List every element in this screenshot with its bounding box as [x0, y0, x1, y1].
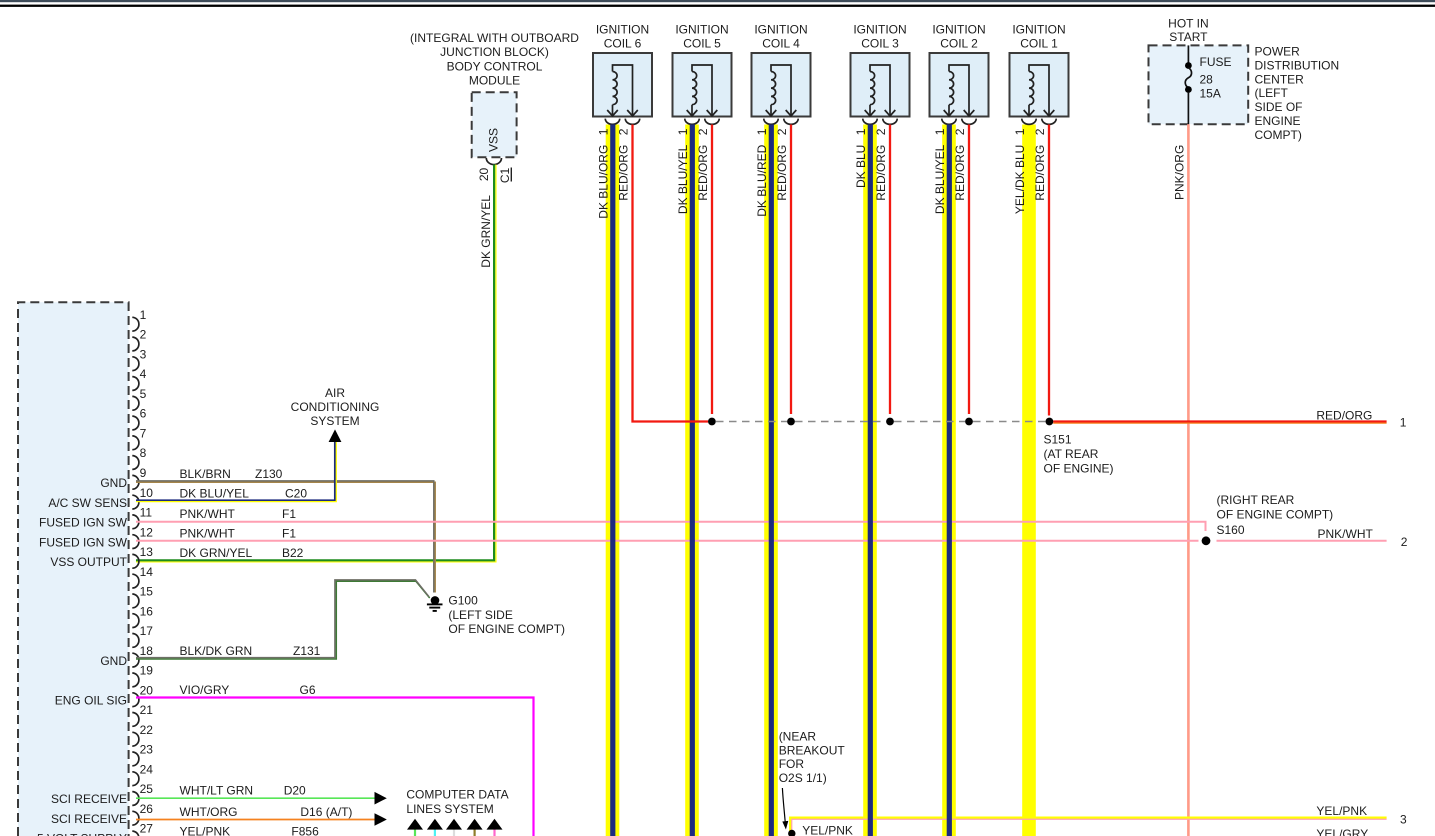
PCM connector pin number 10	[140, 486, 154, 500]
ignition coil 3 box	[851, 53, 910, 117]
PCM connector pin 5 terminal arc	[132, 396, 139, 410]
splice S160 junction dot	[1202, 536, 1211, 545]
wire label VIO/GRY G6	[180, 683, 316, 697]
ignition coil 1 pin 1 terminal arc	[1022, 119, 1036, 125]
PCM connector pin number 4	[140, 367, 147, 381]
wire label DK BLU (vertical)	[854, 145, 868, 188]
splice S160 label	[1217, 493, 1334, 537]
svg-text:VSS OUTPUT: VSS OUTPUT	[50, 555, 127, 569]
wire label RED/ORG coil 6 (vertical)	[617, 145, 631, 201]
wire RED/ORG from S151 to right edge row 1	[1053, 421, 1386, 423]
wire DK BLU/YEL ignition coil 2 pin 1 (yellow highlighted)	[942, 125, 956, 836]
splice junction dot at coil 2 RED/ORG	[965, 418, 973, 426]
ignition coil 1 inductor winding	[1024, 65, 1055, 116]
PCM connector pin 10 terminal arc	[132, 495, 139, 509]
ignition coil 3 inductor winding	[865, 65, 896, 116]
wire RED/ORG ignition coil 3 pin 2	[889, 125, 891, 415]
svg-text:11: 11	[140, 506, 153, 520]
ignition coil 1 pin number 2	[1033, 128, 1047, 135]
PCM connector pin 3 terminal arc	[132, 357, 139, 371]
PCM pin 9 function label GND	[100, 476, 127, 490]
wire VIO/GRY G6 pin 20 engine oil signal	[136, 698, 534, 836]
computer data lines arrow 1	[407, 819, 423, 836]
svg-text:D16 (A/T): D16 (A/T)	[300, 805, 352, 819]
ignition coil 3 pin number 1	[854, 128, 868, 135]
splice junction dot at coil 3 RED/ORG	[886, 418, 894, 426]
svg-text:COMPUTER DATA: COMPUTER DATA	[406, 788, 508, 802]
svg-text:21: 21	[140, 703, 154, 717]
splice junction dot at coil 5 RED/ORG	[708, 418, 716, 426]
wire RED/ORG ignition coil 5 pin 2	[711, 125, 713, 415]
svg-text:G100: G100	[448, 593, 478, 607]
svg-text:7: 7	[140, 427, 147, 441]
svg-text:1: 1	[854, 128, 868, 135]
PCM connector pin 27 terminal arc	[132, 831, 139, 836]
PCM connector pin number 5	[140, 387, 147, 401]
svg-text:COIL 5: COIL 5	[683, 37, 721, 51]
svg-text:SIDE OF: SIDE OF	[1255, 100, 1303, 114]
PCM connector pin 16 terminal arc	[132, 614, 139, 628]
fuse 28 element	[1185, 45, 1192, 124]
PCM connector pin 4 terminal arc	[132, 377, 139, 391]
svg-text:DK BLU/ORG: DK BLU/ORG	[597, 145, 611, 219]
svg-text:1: 1	[755, 128, 769, 135]
wire DK BLU/RED ignition coil 4 pin 1 (yellow highlighted)	[764, 125, 778, 836]
svg-text:2: 2	[775, 128, 789, 135]
svg-text:LINES SYSTEM: LINES SYSTEM	[406, 802, 493, 816]
svg-text:C20: C20	[285, 486, 307, 500]
svg-text:DK GRN/YEL: DK GRN/YEL	[180, 546, 253, 560]
BCM pin label VSS	[487, 128, 501, 152]
wire label DK BLU/YEL C20	[180, 486, 308, 500]
PCM connector pin 25 terminal arc	[132, 792, 139, 806]
PCM connector pin number 2	[140, 328, 147, 342]
PCM connector pin number 11	[140, 506, 153, 520]
svg-text:(AT REAR: (AT REAR	[1044, 447, 1099, 461]
wire label RED/ORG coil 2 (vertical)	[953, 145, 967, 201]
svg-text:COIL 3: COIL 3	[861, 37, 899, 51]
ignition coil 6 pin number 2	[617, 128, 631, 135]
svg-text:PNK/ORG: PNK/ORG	[1172, 145, 1186, 200]
svg-text:F856: F856	[291, 825, 319, 836]
svg-text:HOT IN: HOT IN	[1168, 16, 1208, 30]
svg-text:1: 1	[1400, 416, 1407, 430]
PCM connector pin number 15	[140, 585, 154, 599]
wire label DK GRN/YEL B22	[180, 546, 304, 560]
wire label YEL/PNK F856 (pin 27)	[180, 825, 320, 836]
svg-text:S151: S151	[1044, 432, 1072, 446]
svg-text:A/C SW SENS: A/C SW SENS	[48, 496, 127, 510]
svg-text:22: 22	[140, 723, 154, 737]
wire WHT/LT GRN D20 pin 25 SCI receive	[136, 797, 375, 799]
svg-text:20: 20	[140, 683, 154, 697]
wire label RED/ORG coil 3 (vertical)	[874, 145, 888, 201]
svg-text:B22: B22	[282, 546, 304, 560]
PCM connector pin 26 terminal arc	[132, 811, 139, 825]
svg-text:COMPT): COMPT)	[1255, 128, 1302, 142]
svg-text:S160: S160	[1217, 523, 1245, 537]
svg-text:D20: D20	[284, 784, 306, 798]
ignition coil 4 pin number 1	[755, 128, 769, 135]
svg-text:PNK/WHT: PNK/WHT	[180, 526, 236, 540]
svg-text:C1: C1	[498, 167, 512, 183]
svg-text:RED/ORG: RED/ORG	[696, 145, 710, 201]
PCM connector pin 17 terminal arc	[132, 634, 139, 648]
PCM connector pin 11 terminal arc	[132, 515, 139, 529]
svg-text:19: 19	[140, 664, 154, 678]
svg-text:IGNITION: IGNITION	[596, 23, 649, 37]
ignition coil 5 box	[673, 53, 732, 117]
PCM connector pin number 27	[140, 822, 154, 836]
svg-text:8: 8	[140, 446, 147, 460]
PCM connector pin number 7	[140, 427, 147, 441]
ignition coil 5 pin number 1	[676, 128, 690, 135]
ignition coil 1 box	[1010, 53, 1069, 117]
wire BLK/BRN Z130 pin 9 to G100	[136, 481, 435, 593]
wire label DK BLU/RED (vertical)	[755, 144, 769, 216]
wire label RED/ORG row 1	[1316, 409, 1372, 423]
YEL/PNK splice junction dot	[788, 830, 795, 836]
ignition coil 5 pin number 2	[696, 128, 710, 135]
ignition coil 2 pin 1 terminal arc	[942, 119, 956, 125]
PCM connector pin 22 terminal arc	[132, 732, 139, 746]
svg-text:5 VOLT SUPPLY: 5 VOLT SUPPLY	[37, 832, 127, 836]
ignition coil 1 pin number 1	[1013, 128, 1027, 135]
computer data lines arrow 4	[467, 819, 483, 836]
svg-text:(LEFT SIDE: (LEFT SIDE	[448, 608, 512, 622]
wire label BLK/DK GRN Z131	[180, 644, 321, 658]
svg-text:RED/ORG: RED/ORG	[1316, 409, 1372, 423]
svg-text:DK BLU/YEL: DK BLU/YEL	[180, 486, 250, 500]
wire DK BLU/YEL navy core coil 2	[947, 125, 952, 836]
PCM connector pin number 17	[140, 624, 154, 638]
PCM connector pin number 1	[140, 308, 147, 322]
row number 2	[1401, 535, 1408, 549]
svg-text:(INTEGRAL WITH OUTBOARD: (INTEGRAL WITH OUTBOARD	[410, 31, 579, 45]
BCM connector name C1 (underlined)	[498, 167, 512, 183]
row number 1	[1400, 416, 1407, 430]
PCM connector pin 1 terminal arc	[132, 317, 139, 331]
svg-text:ENG OIL SIG: ENG OIL SIG	[55, 693, 127, 707]
svg-text:1: 1	[676, 128, 690, 135]
wire label YEL/PNK row 3	[1316, 804, 1367, 818]
arrow pin 26 to computer data lines system	[375, 813, 387, 826]
svg-text:RED/ORG: RED/ORG	[953, 145, 967, 201]
wire PNK/WHT F1 pin 12 to right edge	[136, 540, 1387, 542]
svg-text:1: 1	[140, 308, 147, 322]
svg-text:BODY CONTROL: BODY CONTROL	[447, 59, 543, 73]
svg-text:6: 6	[140, 407, 147, 421]
dashed splice bus between RED/ORG splices	[716, 421, 1045, 423]
svg-text:2: 2	[953, 128, 967, 135]
svg-text:16: 16	[140, 604, 154, 618]
wire label DK GRN/YEL (vertical)	[479, 195, 493, 268]
svg-text:VIO/GRY: VIO/GRY	[180, 683, 230, 697]
svg-text:O2S 1/1): O2S 1/1)	[779, 771, 827, 785]
svg-text:IGNITION: IGNITION	[754, 23, 807, 37]
wire label BLK/BRN Z130	[180, 467, 283, 481]
svg-text:IGNITION: IGNITION	[1012, 23, 1065, 37]
wire YEL/DK BLU ignition coil 1 pin 1 (yellow highlighted)	[1022, 125, 1036, 836]
svg-text:20: 20	[477, 167, 491, 181]
wire YEL/PNK row 3	[790, 818, 1387, 832]
svg-text:IGNITION: IGNITION	[675, 23, 728, 37]
svg-text:25: 25	[140, 782, 154, 796]
PCM connector pin 8 terminal arc	[132, 456, 139, 470]
svg-text:WHT/LT GRN: WHT/LT GRN	[180, 784, 254, 798]
svg-text:BLK/DK GRN: BLK/DK GRN	[180, 644, 253, 658]
svg-text:COIL 6: COIL 6	[604, 37, 642, 51]
power distribution center label	[1255, 45, 1340, 142]
BCM connector terminal arc	[486, 158, 501, 165]
PCM connector pin 13 terminal arc	[132, 554, 139, 568]
wire DK BLU/RED navy core coil 4	[769, 125, 774, 836]
body control module U-BCM box	[472, 92, 517, 157]
PCM pin 25 function label SCI RECEIVE	[51, 792, 127, 806]
PCM connector pin number 16	[140, 604, 154, 618]
air conditioning system label	[291, 386, 380, 428]
wire PNK/WHT F1 pin 11 to S160	[136, 522, 1206, 531]
ignition coil 5 pin 2 terminal arc	[705, 119, 719, 125]
svg-text:OF ENGINE COMPT): OF ENGINE COMPT)	[1217, 507, 1334, 521]
wire label DK BLU/YEL (vertical)	[933, 144, 947, 214]
svg-text:3: 3	[1400, 813, 1407, 827]
svg-text:26: 26	[140, 802, 154, 816]
wire label WHT/LT GRN D20	[180, 784, 307, 798]
svg-text:15: 15	[140, 585, 154, 599]
svg-text:PNK/WHT: PNK/WHT	[180, 507, 236, 521]
ignition coil 1 label	[1012, 23, 1065, 51]
PCM pin 10 function label A/C SW SENS	[48, 496, 127, 510]
wire label DK BLU/ORG (vertical)	[597, 145, 611, 219]
wire label PNK/WHT F1 (pin 12)	[180, 526, 297, 540]
svg-text:ENGINE: ENGINE	[1255, 114, 1301, 128]
ignition coil 2 box	[930, 53, 989, 117]
PCM connector pin number 6	[140, 407, 147, 421]
PCM connector pin number 20	[140, 683, 154, 697]
PCM connector pin 21 terminal arc	[132, 713, 139, 727]
svg-text:RED/ORG: RED/ORG	[874, 145, 888, 201]
svg-text:WHT/ORG: WHT/ORG	[180, 805, 238, 819]
svg-text:CONDITIONING: CONDITIONING	[291, 400, 380, 414]
ignition coil 1 pin 2 terminal arc	[1042, 119, 1056, 125]
svg-text:FUSE: FUSE	[1200, 55, 1232, 69]
svg-text:GND: GND	[100, 654, 127, 668]
splice S151 label	[1044, 432, 1114, 475]
svg-text:24: 24	[140, 762, 154, 776]
wire RED/ORG ignition coil 6 pin 2 to splice bus	[633, 125, 709, 422]
svg-text:DK BLU/RED: DK BLU/RED	[755, 144, 769, 216]
svg-text:2: 2	[696, 128, 710, 135]
svg-text:POWER: POWER	[1255, 45, 1301, 59]
svg-text:G6: G6	[300, 683, 316, 697]
svg-text:YEL/DK BLU: YEL/DK BLU	[1013, 145, 1027, 214]
svg-text:28: 28	[1200, 73, 1214, 87]
wire RED/ORG ignition coil 1 pin 2	[1048, 125, 1050, 416]
ignition coil 6 inductor winding	[607, 65, 638, 116]
svg-text:(RIGHT REAR: (RIGHT REAR	[1217, 493, 1295, 507]
ignition coil 6 box	[593, 53, 652, 117]
svg-text:START: START	[1169, 30, 1208, 44]
ignition coil 3 pin number 2	[874, 128, 888, 135]
page top border	[0, 0, 1435, 7]
ignition coil 4 inductor winding	[766, 65, 797, 116]
svg-text:RED/ORG: RED/ORG	[617, 145, 631, 201]
ignition coil 6 pin 1 terminal arc	[605, 119, 619, 125]
BCM pin number 20	[477, 167, 491, 181]
svg-text:2: 2	[1033, 128, 1047, 135]
PCM connector pin 18 terminal arc	[132, 653, 139, 667]
wire PNK/ORG from fuse 28 down	[1187, 124, 1190, 836]
ignition coil 6 pin 2 terminal arc	[625, 119, 639, 125]
svg-text:YEL/PNK: YEL/PNK	[180, 825, 231, 836]
svg-text:1: 1	[1013, 128, 1027, 135]
svg-text:23: 23	[140, 743, 154, 757]
svg-text:YEL/PNK: YEL/PNK	[1316, 804, 1367, 818]
PCM connector pin 9 terminal arc	[132, 475, 139, 489]
svg-text:PNK/WHT: PNK/WHT	[1318, 527, 1374, 541]
svg-text:DK BLU/YEL: DK BLU/YEL	[676, 144, 690, 214]
svg-text:SCI RECEIVE: SCI RECEIVE	[51, 812, 127, 826]
svg-text:IGNITION: IGNITION	[853, 23, 906, 37]
wire DK BLU/YEL ignition coil 5 pin 1 (yellow highlighted)	[685, 125, 699, 836]
svg-text:DK BLU: DK BLU	[854, 145, 868, 188]
svg-text:1: 1	[933, 128, 947, 135]
ground G100 symbol	[427, 596, 443, 611]
svg-text:F1: F1	[282, 507, 296, 521]
ground G100 label	[448, 593, 565, 636]
wire WHT/ORG D16 pin 26 SCI receive	[136, 819, 375, 821]
PCM pin 27 function label 5 VOLT SUPPLY	[37, 832, 127, 836]
svg-text:JUNCTION BLOCK): JUNCTION BLOCK)	[440, 45, 549, 59]
PCM connector pin number 21	[140, 703, 154, 717]
wire label YEL/DK BLU (vertical)	[1013, 145, 1027, 214]
wire DK BLU/YEL navy core coil 5	[690, 125, 695, 836]
svg-text:AIR: AIR	[325, 386, 345, 400]
PCM connector pin number 26	[140, 802, 154, 816]
wire label PNK/WHT F1 (pin 11)	[180, 507, 297, 521]
PCM connector pin number 24	[140, 762, 154, 776]
svg-text:GND: GND	[100, 476, 127, 490]
ignition coil 2 pin number 1	[933, 128, 947, 135]
computer data lines system label	[406, 788, 508, 816]
wire label DK BLU/YEL (vertical)	[676, 144, 690, 214]
ignition coil 5 inductor winding	[687, 65, 718, 116]
PCM connector pin 23 terminal arc	[132, 752, 139, 766]
wire label PNK/WHT row 2	[1318, 527, 1374, 541]
wire DK BLU ignition coil 3 pin 1 (yellow highlighted)	[863, 125, 877, 836]
computer data lines arrow 2	[427, 819, 443, 836]
svg-text:FUSED IGN SW: FUSED IGN SW	[39, 516, 128, 530]
svg-text:COIL 2: COIL 2	[940, 37, 978, 51]
svg-text:3: 3	[140, 347, 147, 361]
svg-text:RED/ORG: RED/ORG	[1033, 145, 1047, 201]
wire label YEL/GRY row 4	[1316, 827, 1368, 836]
ignition coil 3 pin 2 terminal arc	[883, 119, 897, 125]
wire RED/ORG ignition coil 2 pin 2	[968, 125, 970, 415]
PCM pin 12 function label FUSED IGN SW	[39, 535, 128, 549]
svg-text:4: 4	[140, 367, 147, 381]
ignition coil 2 inductor winding	[944, 65, 975, 116]
svg-text:Z130: Z130	[255, 467, 283, 481]
ignition coil 3 pin 1 terminal arc	[863, 119, 877, 125]
body control module label	[410, 31, 579, 88]
svg-text:F1: F1	[282, 526, 296, 540]
PCM pin 20 function label ENG OIL SIG	[55, 693, 127, 707]
PCM pin 13 function label VSS OUTPUT	[50, 555, 127, 569]
svg-text:2: 2	[1401, 535, 1408, 549]
PCM connector box	[18, 302, 129, 836]
svg-text:1: 1	[597, 128, 611, 135]
PCM connector pin 7 terminal arc	[132, 436, 139, 450]
svg-text:FUSED IGN SW: FUSED IGN SW	[39, 535, 128, 549]
PCM connector pin number 13	[140, 545, 154, 559]
PCM connector pin number 8	[140, 446, 147, 460]
svg-text:RED/ORG: RED/ORG	[775, 145, 789, 201]
PCM connector pin 19 terminal arc	[132, 673, 139, 687]
ignition coil 4 label	[754, 23, 807, 51]
PCM connector pin number 23	[140, 743, 154, 757]
svg-text:17: 17	[140, 624, 154, 638]
svg-text:SYSTEM: SYSTEM	[310, 414, 359, 428]
wire label PNK/ORG (vertical)	[1172, 145, 1186, 200]
wire DK BLU/YEL C20 pin 10 to air conditioning system	[136, 442, 336, 502]
svg-text:IGNITION: IGNITION	[932, 23, 985, 37]
PCM connector pin number 9	[140, 466, 147, 480]
pointer arrow to YEL/PNK splice	[782, 788, 788, 830]
wire DK BLU/ORG navy core coil 6	[610, 125, 615, 836]
wire label RED/ORG coil 4 (vertical)	[775, 145, 789, 201]
svg-text:(NEAR: (NEAR	[779, 729, 817, 743]
PCM connector pin 12 terminal arc	[132, 535, 139, 549]
ignition coil 4 pin 2 terminal arc	[784, 119, 798, 125]
svg-text:COIL 4: COIL 4	[762, 37, 800, 51]
svg-text:DK GRN/YEL: DK GRN/YEL	[479, 195, 493, 268]
PCM pin 18 function label GND	[100, 654, 127, 668]
PCM connector pin 24 terminal arc	[132, 772, 139, 786]
PCM connector pin number 14	[140, 565, 154, 579]
svg-text:COIL 1: COIL 1	[1020, 37, 1058, 51]
PCM connector pin 20 terminal arc	[132, 693, 139, 707]
ignition coil 4 box	[752, 53, 811, 117]
svg-text:OF ENGINE): OF ENGINE)	[1044, 461, 1114, 475]
svg-text:MODULE: MODULE	[469, 74, 520, 88]
svg-text:SCI RECEIVE: SCI RECEIVE	[51, 792, 127, 806]
PCM pin 26 function label SCI RECEIVE	[51, 812, 127, 826]
wire label RED/ORG coil 1 (vertical)	[1033, 145, 1047, 201]
wire DK BLU/ORG ignition coil 6 pin 1 (yellow highlighted)	[606, 125, 620, 836]
wire RED/ORG ignition coil 4 pin 2	[790, 125, 792, 415]
wire DK BLU navy core coil 3	[868, 125, 873, 836]
arrow to air conditioning system	[329, 429, 342, 442]
svg-text:BREAKOUT: BREAKOUT	[779, 743, 846, 757]
svg-text:9: 9	[140, 466, 147, 480]
ignition coil 2 label	[932, 23, 985, 51]
PCM connector pin 14 terminal arc	[132, 574, 139, 588]
svg-text:2: 2	[874, 128, 888, 135]
ignition coil 4 pin number 2	[775, 128, 789, 135]
ignition coil 3 label	[853, 23, 906, 51]
svg-text:OF ENGINE COMPT): OF ENGINE COMPT)	[448, 622, 565, 636]
svg-text:YEL/GRY: YEL/GRY	[1316, 827, 1368, 836]
ignition coil 5 label	[675, 23, 728, 51]
PCM connector pin 15 terminal arc	[132, 594, 139, 608]
fuse label FUSE 28 15A	[1200, 55, 1232, 101]
HOT IN START label	[1168, 16, 1208, 44]
PCM connector pin 6 terminal arc	[132, 416, 139, 430]
wire label YEL/PNK at splice	[802, 824, 853, 836]
svg-text:BLK/BRN: BLK/BRN	[180, 467, 231, 481]
